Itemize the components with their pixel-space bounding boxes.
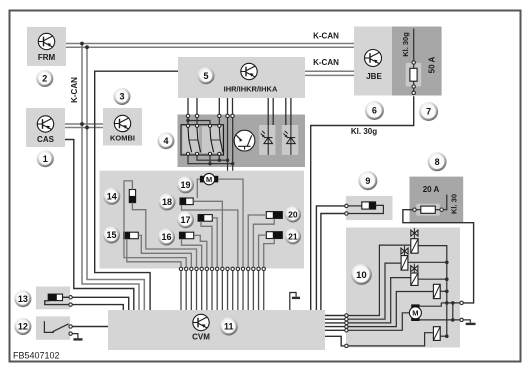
svg-text:FRM: FRM (38, 53, 56, 62)
svg-text:19: 19 (180, 180, 190, 190)
svg-text:20 A: 20 A (423, 185, 440, 194)
sensor 17 symbol (198, 215, 212, 222)
terminals CVM connector row (179, 267, 182, 270)
wire CVM-box10 y=326.6 (325, 326, 345, 328)
wire sensor 14b to connector (132, 203, 196, 267)
sensor box 9 (346, 196, 393, 220)
svg-text:7: 7 (426, 107, 431, 117)
wire fuse 20A to Kl.30 (443, 195, 446, 210)
node 17 (177, 211, 194, 228)
svg-text:5: 5 (203, 71, 208, 81)
terminal fuse 50A top (412, 61, 415, 64)
relay contacts (186, 124, 191, 155)
sensor 18 symbol (180, 198, 193, 205)
wire motor M2 bottom to ground (420, 319, 460, 321)
wire sensor 21a to connector (259, 235, 267, 267)
wire box9 lower to CVM (321, 214, 345, 311)
sensor 13 symbol (48, 294, 62, 301)
wire relay output rail 2 (188, 155, 233, 163)
terminal fuse 50A bottom (412, 91, 415, 94)
ground at box 10 right (463, 320, 470, 323)
wire power rail in box10 (441, 302, 460, 304)
svg-text:JBE: JBE (366, 72, 382, 81)
actuator module box 10 (346, 228, 460, 348)
svg-text:Kl. 30g: Kl. 30g (351, 127, 377, 136)
wire sensor 18a to connector (182, 205, 238, 267)
photodiode symbol at 290.9 (283, 125, 295, 155)
node 12 (14, 318, 31, 335)
node 9 (358, 171, 377, 190)
photodiode symbol at 268.2 (261, 125, 273, 155)
fuse 20A holder (416, 204, 440, 216)
svg-text:17: 17 (180, 215, 190, 225)
wire CAS to CVM (65, 140, 134, 311)
wire CVM-box10 y=315.5 (325, 315, 345, 317)
wire sensor 18b to connector (193, 201, 222, 267)
wire K-CAN bus FRM to JBE (upper pair) (66, 43, 354, 45)
node 19 (177, 176, 194, 193)
node 15 (103, 227, 120, 244)
sensor 16 symbol (180, 232, 194, 239)
svg-text:IHR/IHKR/IHKA: IHR/IHKR/IHKA (224, 85, 278, 94)
control unit KOMBI box (103, 108, 142, 146)
wire CVM-box10 y=322.9 (325, 322, 345, 324)
wire CVM-box10 y=330.3 (325, 329, 345, 331)
valve actuator B (404, 246, 406, 256)
wire sensor 16b to connector (194, 235, 207, 267)
relay K1 body (183, 126, 200, 153)
control unit CVM box (108, 310, 325, 350)
svg-text:K-CAN: K-CAN (313, 32, 339, 41)
svg-text:K-CAN: K-CAN (313, 58, 339, 67)
node 10 (351, 264, 372, 285)
wire relay coil feeds (187, 118, 189, 125)
svg-text:8: 8 (435, 157, 440, 167)
svg-text:3: 3 (119, 92, 124, 102)
control unit JBE box (354, 27, 392, 96)
wire IHKA left to CVM (95, 71, 178, 310)
node 7 (419, 102, 438, 121)
op-amp CVM icon (193, 314, 209, 330)
wire actuator B out (408, 261, 447, 263)
wire CVM-box10 lowest (325, 336, 345, 346)
op-amp FRM icon (38, 33, 54, 49)
actuator D (433, 284, 440, 298)
svg-text:11: 11 (224, 322, 234, 332)
switch box 12 (36, 316, 70, 339)
wires IHKA to photodiodes (267, 98, 269, 125)
node 20 (285, 206, 301, 222)
node 5 (198, 67, 215, 84)
terminals fuse 20A (416, 209, 421, 211)
svg-text:21: 21 (288, 231, 298, 241)
wire sensor 15a to connector (127, 239, 181, 267)
wire motor M left stub (197, 179, 200, 198)
svg-text:18: 18 (162, 197, 172, 207)
svg-text:15: 15 (106, 230, 116, 240)
sensor 9 symbol (362, 202, 376, 209)
wire branch to relay K2 (188, 121, 210, 125)
svg-text:K-CAN: K-CAN (70, 77, 79, 103)
ground at box 12 (72, 334, 78, 339)
svg-text:1: 1 (43, 154, 48, 164)
svg-text:Kl. 30: Kl. 30 (450, 194, 459, 214)
wire fuse 20A feed to box 10 (403, 210, 474, 303)
valve actuator A (413, 228, 415, 239)
wires IHKA to relay box (187, 98, 189, 114)
svg-text:M: M (206, 175, 212, 184)
wire sensor 15b to connector (138, 235, 191, 267)
fuse 50A body (410, 68, 417, 81)
svg-text:4: 4 (163, 136, 168, 146)
wires sensor 9 internal (348, 205, 362, 207)
motor M2 (409, 304, 421, 321)
wire K-CAN bus CAS to KOMBI (pair) (65, 123, 103, 125)
wire box13 lower to CVM (45, 301, 69, 305)
svg-text:20: 20 (288, 209, 298, 219)
valve actuator C (413, 264, 415, 273)
wire actuator C out (418, 278, 447, 280)
fuse 50A holder (406, 63, 422, 87)
wire sensor 20b to connector (253, 219, 274, 267)
wire box9 upper to CVM (316, 206, 344, 310)
svg-text:16: 16 (161, 232, 171, 242)
wire relay pass-through 2 (232, 118, 234, 269)
thermo sensor circle (in box 4) (234, 130, 255, 151)
svg-text:9: 9 (365, 176, 370, 186)
terminals relay box top (186, 114, 189, 117)
svg-text:CAS: CAS (37, 135, 55, 144)
wire sensor 20a to connector (248, 215, 266, 267)
wire relay contact stubs (218, 155, 220, 160)
sensor 20 symbol (266, 212, 282, 219)
wire K-CAN vertical bus line 2 (87, 47, 144, 310)
node 21 (285, 228, 301, 244)
wires connector row to CVM (180, 271, 182, 310)
op-amp IHKA icon (241, 63, 257, 79)
switch S12 symbol (44, 321, 54, 332)
actuator E (433, 327, 440, 341)
control unit CAS box (26, 108, 65, 147)
node 4 (158, 132, 175, 149)
wire motor M2 top brush (420, 303, 442, 306)
relay module box 4 dark (178, 115, 306, 168)
photodiode box S2 (282, 125, 298, 155)
node 11 (220, 318, 238, 336)
control unit FRM box (27, 27, 66, 66)
switch sensor box 13 (36, 287, 70, 310)
node 8 (428, 152, 447, 171)
fuse 20A body (421, 206, 436, 213)
wire box12 to CVM (72, 326, 108, 328)
svg-text:2: 2 (42, 74, 47, 84)
sensor module box (14-21) (100, 171, 305, 269)
svg-text:10: 10 (356, 270, 367, 281)
wire relay output rail 1 (197, 155, 228, 160)
wire K-CAN vertical bus line 1 (82, 44, 139, 311)
wire sensor 21b to connector (264, 239, 274, 267)
ground above CVM (290, 293, 296, 311)
svg-text:M: M (412, 309, 418, 318)
terminal fuse 50A mid (412, 85, 415, 88)
wire fuse 50A inner leads (413, 64, 415, 68)
wire actuator E out (440, 335, 447, 337)
node 18 (159, 194, 176, 211)
svg-text:13: 13 (18, 294, 28, 304)
node 3 (114, 88, 131, 105)
svg-text:50 A: 50 A (428, 56, 437, 73)
wire box13 upper to CVM (63, 296, 69, 298)
wire sensor 17a to connector (201, 221, 212, 267)
node 2 (36, 70, 53, 87)
wire CVM-box10 y=319.2 (325, 318, 345, 320)
svg-text:KOMBI: KOMBI (110, 134, 135, 143)
wire sensor 17b to connector (212, 218, 217, 267)
svg-text:14: 14 (107, 192, 117, 202)
svg-text:FB5407102: FB5407102 (13, 351, 60, 361)
wire sensor 16a to connector (182, 239, 202, 267)
node 13 (14, 290, 31, 307)
svg-text:CVM: CVM (192, 333, 210, 342)
junction dots K-CAN (80, 42, 84, 46)
control unit IHR/IHKR/IHKA box (178, 57, 305, 98)
wire relay pass-through 1 (227, 118, 229, 269)
wire JBE fuse output Kl.30g to CVM (311, 96, 414, 310)
node 14 (103, 188, 120, 205)
power section JBE box dark (392, 27, 442, 96)
svg-text:12: 12 (18, 322, 28, 332)
relay group frame (181, 125, 224, 155)
wire bus right box10 (418, 246, 447, 337)
svg-text:6: 6 (372, 106, 377, 116)
op-amp KOMBI icon (114, 115, 130, 131)
node 16 (158, 229, 175, 246)
sensor 15 symbol (124, 232, 139, 239)
photodiode box S1 (259, 125, 275, 155)
wire fuse 50A lead (413, 29, 415, 63)
sensor 21 symbol (266, 232, 282, 239)
wire sensor 14a to connector (124, 181, 186, 267)
motor M flap drive (200, 173, 218, 184)
op-amp CAS icon (37, 116, 53, 132)
op-amp JBE icon (365, 50, 382, 67)
svg-text:Kl. 30g: Kl. 30g (401, 32, 410, 57)
node 1 (37, 150, 54, 167)
relay K2 body (202, 126, 222, 153)
fuse box 8 dark (410, 177, 464, 224)
wire actuator D out (440, 290, 447, 292)
wire K-CAN bus IHKA to JBE (middle pair) (305, 70, 354, 72)
sensor 14 symbol (129, 190, 135, 203)
node 6 (365, 101, 384, 120)
relay link bars (189, 139, 197, 141)
wire motor M right to connector (218, 179, 243, 267)
